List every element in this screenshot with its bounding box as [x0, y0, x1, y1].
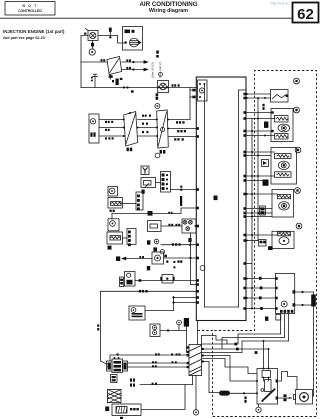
blower switch box	[257, 369, 278, 405]
plus feed stub	[109, 28, 111, 36]
tag circle G5	[296, 223, 302, 229]
wire fan to feed	[81, 36, 88, 88]
chain wires K2 to K3	[138, 119, 157, 121]
diag socket box B5	[129, 306, 145, 320]
unit bottom drop to harness	[197, 321, 199, 345]
L-wire tags	[139, 290, 141, 293]
L-wire to lower harness	[101, 291, 197, 364]
control unit inner right wall	[238, 90, 240, 307]
G4 inlet connector	[260, 206, 266, 215]
wire row2b to unit	[161, 244, 196, 246]
tag circle G3	[295, 147, 301, 153]
control unit big box	[196, 77, 246, 321]
svg-text:Wiring diagram: Wiring diagram	[149, 8, 188, 14]
step wires harness top	[202, 336, 228, 345]
sensor C dot	[111, 190, 113, 192]
right feed bus B	[257, 98, 259, 241]
switch to motor path top	[278, 372, 298, 390]
motor dot	[303, 396, 306, 399]
cluster contents	[108, 363, 111, 370]
thermal sensor S1	[92, 41, 94, 50]
G6 wires right to condenser fan	[295, 291, 314, 293]
tachy feed wires	[173, 297, 175, 311]
connector strip R2	[136, 192, 143, 210]
wire tag marks top	[101, 59, 103, 61]
wire resistor2 to strip R3	[123, 237, 128, 239]
G5 pins	[251, 234, 253, 236]
switch to motor wire	[278, 397, 292, 399]
circled tag on bus unit	[159, 72, 163, 76]
strip R1 pins	[162, 174, 165, 177]
sensor resistor mark	[91, 43, 94, 47]
relay feed wire	[81, 61, 107, 63]
sensor C box	[108, 187, 118, 197]
earth tag circle	[193, 410, 198, 415]
wire resistor to strip R2	[121, 203, 136, 205]
svg-text:62: 62	[297, 6, 314, 23]
vertical label bar	[180, 196, 182, 206]
harness wires right	[202, 343, 239, 345]
row4 marks	[120, 279, 123, 281]
harness left wires	[110, 355, 189, 361]
pump out contact	[138, 40, 141, 44]
B6 marks	[154, 327, 156, 329]
thermostat box row2	[148, 221, 162, 232]
wire pin tags bottom middle	[234, 343, 237, 346]
junction dots top cluster	[109, 36, 111, 38]
injection unit small box row4	[125, 272, 136, 287]
page number 62 box	[293, 3, 319, 23]
arrow left row3	[126, 258, 152, 260]
sensor G dot	[112, 223, 114, 225]
resistor box row1	[108, 198, 123, 209]
wire to connector strip R1	[156, 182, 161, 184]
G4 pins	[251, 193, 253, 195]
relay pin dots	[123, 119, 125, 121]
relay tag circle	[177, 320, 182, 325]
G5 wires	[246, 234, 278, 236]
tag circle G1	[294, 78, 300, 84]
condenser fan drop wire	[313, 292, 315, 396]
relay K3	[157, 110, 169, 148]
blower switch feed 1	[263, 341, 265, 369]
pressure switch tri-circle	[182, 219, 196, 233]
blower motor box	[296, 390, 313, 405]
fan unit G4 box	[272, 190, 294, 218]
icon box Y	[141, 166, 149, 175]
diode pack body	[184, 318, 189, 327]
label square under Y box	[142, 190, 145, 194]
unit right pin squares	[243, 93, 246, 96]
G2 pins	[271, 111, 273, 113]
chain wires box1 to relay K2	[99, 119, 124, 121]
harness left wire tags	[117, 353, 119, 355]
strip R2 pins	[137, 195, 140, 198]
ballast resistor capsule	[220, 391, 230, 395]
resistor box row2	[107, 232, 123, 244]
G2 wires	[246, 112, 271, 114]
circled sensor small	[154, 239, 159, 244]
sensor G box	[108, 219, 119, 231]
G1 pins/labels	[246, 93, 248, 95]
G3 inlet connector	[262, 160, 269, 167]
motor wire tags	[283, 394, 286, 397]
aerial temp sensor box	[141, 178, 156, 188]
svg-text:(See 62-23): (See 62-23)	[151, 62, 155, 78]
G1 wires	[246, 93, 271, 95]
resistor row2 label W	[108, 246, 112, 250]
header rule	[0, 17, 293, 19]
fuse label marks	[112, 376, 116, 378]
unit interior tag	[214, 196, 218, 201]
lower connector cluster	[107, 361, 113, 371]
tag wire with marks	[140, 384, 185, 386]
right feed bus A	[251, 119, 253, 309]
G6 bottom drops	[280, 314, 282, 335]
fan unit G3 box	[271, 148, 297, 185]
wire to pump unit	[118, 36, 124, 44]
diode pack drop	[186, 327, 188, 353]
thermostat tags	[168, 224, 170, 226]
crosshatch box	[108, 390, 122, 403]
thermo switch G1 box	[271, 90, 289, 103]
staircase wire 2	[222, 338, 285, 350]
relay labels below	[127, 148, 129, 152]
svg-text:http://vnx.su: http://vnx.su	[271, 2, 289, 6]
svg-text:N O T: N O T	[22, 4, 37, 8]
earth tag mark	[195, 412, 197, 414]
G3 wires	[246, 151, 275, 153]
wire thermostat to pressure sensor	[161, 225, 182, 227]
battery feed symbol	[94, 75, 96, 88]
control unit inner bottom	[205, 306, 239, 308]
staircase wire 1	[238, 334, 281, 344]
wire strip R1 to unit	[171, 189, 197, 191]
switch tag circle	[256, 407, 261, 412]
relay K1	[107, 57, 122, 75]
row2b tags	[172, 243, 174, 245]
battery box	[112, 404, 141, 416]
G4 wires	[246, 193, 278, 195]
svg-text:CONTROLLED: CONTROLLED	[18, 9, 42, 13]
svg-text:(See part 2): (See part 2)	[158, 62, 162, 78]
bus notch to unit pins	[189, 88, 191, 120]
dashed engine-bay enclosure	[198, 71, 317, 417]
circled tag A row1	[155, 153, 160, 158]
twin tags	[130, 379, 132, 382]
row3 sensor marks	[153, 247, 157, 251]
relay K2	[124, 112, 138, 147]
row2 wire blob	[148, 211, 153, 216]
arrowheads	[144, 60, 149, 64]
chain wire tag marks	[105, 121, 107, 123]
ignition box label	[90, 132, 92, 136]
unit left pins	[196, 127, 199, 130]
mini strip row4	[120, 277, 124, 287]
svg-text:INJECTION ENGINE (1st part): INJECTION ENGINE (1st part)	[3, 29, 65, 34]
relay unit G6 box	[276, 274, 295, 314]
connector strip R1	[161, 172, 171, 193]
diag sensor box row3	[152, 252, 164, 264]
G6 pins	[275, 277, 278, 280]
fan unit G2 box	[271, 109, 293, 142]
circled tag below bus unit	[155, 104, 160, 109]
tachy dots	[172, 296, 174, 298]
unit pin squares at bus notch	[192, 89, 195, 92]
tag letters	[295, 80, 297, 82]
wire row4 to unit	[135, 280, 196, 282]
wire B6 to diode	[160, 330, 187, 332]
tag circle G4	[295, 188, 301, 194]
battery label marks	[130, 408, 132, 410]
G6 wires left	[246, 278, 276, 280]
G5 inlet connector	[259, 240, 267, 247]
relay K1 coil stub	[109, 75, 111, 80]
fan unit G5 box	[272, 231, 294, 248]
ignition switch box	[89, 114, 99, 143]
wire tag R1	[180, 186, 182, 188]
fuse label box	[111, 375, 118, 383]
battery out wire	[141, 385, 193, 410]
tag circle G2	[294, 107, 300, 113]
control unit inner left wall	[204, 84, 206, 307]
switch left label	[244, 396, 246, 399]
wire fan to pump	[98, 35, 118, 37]
supply bus	[81, 87, 198, 89]
fuse label mark	[116, 79, 119, 86]
earth drop	[195, 376, 197, 410]
strip R3 pins	[128, 231, 131, 234]
twin sensor box B6	[150, 324, 160, 337]
NOT CONTROLLED box	[5, 2, 55, 16]
harness H pins	[187, 346, 189, 348]
B5 marks	[132, 313, 143, 315]
inline sensor on row4 wire	[162, 275, 173, 284]
wire row3 to unit	[164, 257, 197, 259]
G3 pins	[251, 151, 253, 153]
wire B5 to tachy vertical	[145, 310, 174, 312]
harness connector H hatched	[189, 345, 202, 376]
wires K3 to control unit	[168, 119, 190, 121]
connector strip R3	[127, 229, 136, 245]
arrow out 1	[122, 61, 144, 63]
circled tag in unit	[200, 266, 205, 271]
switch pins	[263, 368, 265, 370]
row3 arrow box and head	[116, 256, 120, 261]
unit left pin squares mid	[196, 188, 199, 191]
G6 aux box	[276, 315, 281, 321]
fan unit V1	[88, 31, 98, 41]
svg-text:2nd part see page 62-23: 2nd part see page 62-23	[3, 36, 45, 40]
inline switch unit on bus	[158, 81, 169, 93]
sensor box in unit	[198, 80, 208, 101]
pump unit U1	[123, 27, 143, 51]
pressure switch drop wire	[190, 233, 192, 285]
arrow out 2	[121, 69, 144, 71]
svg-text:AIR CONDITIONING: AIR CONDITIONING	[139, 1, 197, 8]
condenser feed block	[311, 295, 316, 307]
resistor row1 label	[110, 210, 112, 212]
wire mid row2	[112, 212, 181, 214]
staircase wire 3	[242, 341, 289, 353]
